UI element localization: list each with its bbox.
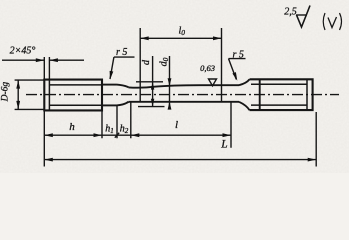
l0 arrows <box>140 36 149 40</box>
slash tick at h1/h2 boundary <box>115 133 119 138</box>
svg-text:l: l <box>175 119 178 131</box>
right head outline <box>250 79 313 110</box>
d arrows <box>151 82 154 90</box>
bottom dimension line h h1 h2 l <box>44 134 231 136</box>
r5 right leader <box>229 59 246 80</box>
right head thread end transverse line <box>259 79 261 110</box>
D-6g dimension line <box>17 80 19 109</box>
svg-text:h: h <box>69 121 75 133</box>
svg-text:2×45°: 2×45° <box>10 46 36 57</box>
bottom extension verticals <box>102 102 231 148</box>
left head chamfer line <box>48 80 50 111</box>
left fillet top r5 <box>117 85 129 88</box>
center axis line <box>26 94 339 96</box>
right fillet bottom r5 <box>239 102 250 110</box>
left head thread root lines <box>49 85 102 105</box>
right head chamfer line <box>306 79 308 110</box>
chamfer dimension line left part <box>2 59 44 61</box>
D dim arrows <box>16 80 20 89</box>
left head outline <box>44 80 102 111</box>
left fillet bottom r5 <box>117 102 129 106</box>
h arrows <box>44 133 53 137</box>
right fillet top r5 <box>239 79 250 85</box>
d dimension line <box>152 56 154 107</box>
roughness 0,63 triangle <box>209 79 217 86</box>
L extension verticals <box>44 110 316 166</box>
d0 arrows <box>168 78 172 86</box>
gauge bottom edge <box>129 101 240 103</box>
svg-text:D-6g: D-6g <box>1 82 11 103</box>
right head thread root lines <box>251 84 307 105</box>
roughness check symbol top right <box>296 6 310 28</box>
d extension ticks <box>136 82 165 107</box>
chamfer arrows (outside pointing inward) <box>36 58 45 62</box>
r5 left leader <box>110 57 135 79</box>
svg-text:r 5: r 5 <box>116 47 127 58</box>
d0 dimension line <box>169 56 171 109</box>
chamfer dimension line right part <box>49 59 84 61</box>
r5 left leader arrow <box>110 71 114 80</box>
svg-text:l0: l0 <box>179 26 186 38</box>
svg-text:d0: d0 <box>159 57 171 66</box>
svg-text:L: L <box>220 139 227 151</box>
L dimension line <box>44 159 316 161</box>
chamfer 2x45 extension lines <box>44 57 49 80</box>
svg-text:r 5: r 5 <box>233 50 244 61</box>
l arrows <box>131 133 140 137</box>
(v) symbol <box>323 13 341 30</box>
r5 right leader arrow <box>232 72 237 81</box>
l0 extension lines <box>140 28 221 102</box>
svg-text:0,63: 0,63 <box>200 63 215 73</box>
arrowheads <box>16 36 316 161</box>
left land (thread runout) top <box>102 84 117 86</box>
D-6g extension lines <box>15 80 45 109</box>
L arrows <box>44 158 53 162</box>
l0 dimension line <box>140 37 221 39</box>
left land bottom <box>102 104 117 106</box>
gauge top edge <box>129 85 240 88</box>
svg-text:2,5: 2,5 <box>284 7 297 18</box>
